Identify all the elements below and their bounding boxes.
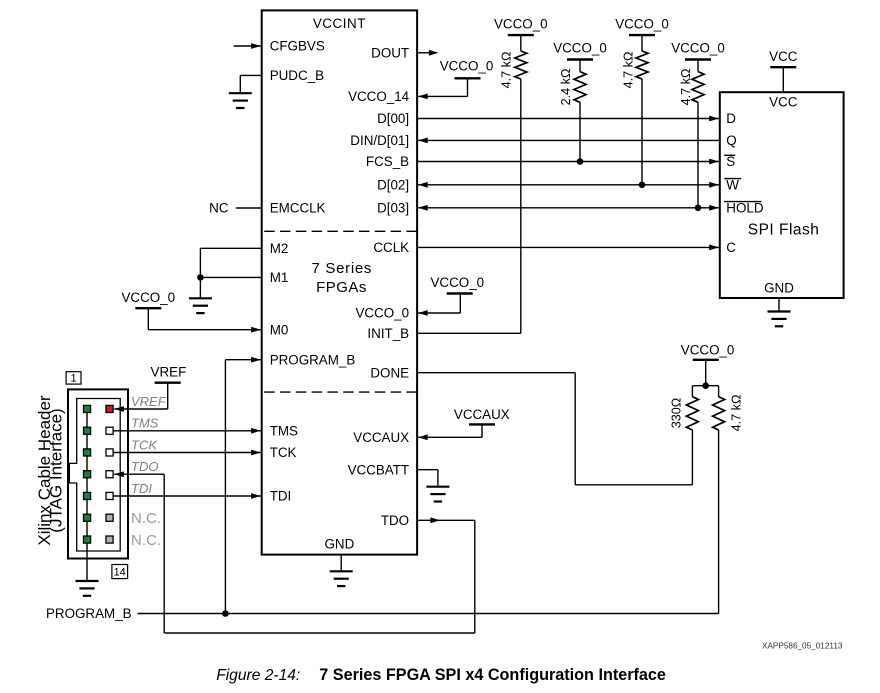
label 4.7 kOhm R3 xyxy=(621,52,635,89)
svg-text:N.C.: N.C. xyxy=(131,510,161,527)
SPI Flash label GND pin xyxy=(764,281,794,296)
wire TCK header to FPGA with arrow xyxy=(113,450,262,456)
svg-text:N.C.: N.C. xyxy=(131,532,161,549)
SPI Flash label VCC pin xyxy=(769,95,798,110)
resistor R1 4.7 kOhm (INIT_B pull-up) xyxy=(515,51,527,79)
svg-text:D[03]: D[03] xyxy=(377,201,409,216)
JTAG header outer shroud xyxy=(68,389,128,558)
wire TMS header to FPGA with arrow xyxy=(113,428,262,434)
wire CCLK to flash C with arrow xyxy=(417,245,720,251)
svg-text:TDI: TDI xyxy=(270,489,292,504)
svg-text:VCCAUX: VCCAUX xyxy=(353,430,409,445)
svg-text:1: 1 xyxy=(70,373,76,385)
power symbol VCCO_0 (M0) xyxy=(122,290,176,330)
overline for pin W xyxy=(724,178,741,180)
FPGA pin label M2 xyxy=(270,241,289,256)
svg-text:DONE: DONE xyxy=(370,365,409,380)
svg-text:VREF: VREF xyxy=(131,394,167,409)
SPI Flash pin label C xyxy=(726,240,736,255)
ground (VCCBATT) xyxy=(426,487,449,502)
FPGA pin label TMS xyxy=(270,423,298,438)
caption Figure 2-14 xyxy=(216,666,666,684)
watermark XAPP586_05_012113 xyxy=(762,642,843,651)
wire VCCAUX supply to pin with arrow xyxy=(417,434,482,440)
svg-text:VCCAUX: VCCAUX xyxy=(454,407,510,422)
wire FPGA GND stem xyxy=(340,555,342,572)
svg-text:PROGRAM_B: PROGRAM_B xyxy=(46,606,132,621)
svg-text:VCCO_0: VCCO_0 xyxy=(671,40,725,55)
JTAG header ground rail wire xyxy=(86,409,88,581)
label 4.7 kOhm R1 xyxy=(500,52,514,89)
label NC xyxy=(209,200,229,215)
pin 1 marker box xyxy=(66,372,81,385)
FPGA pin label FCS_B xyxy=(366,154,409,169)
JTAG header pin square left row 5 (green) xyxy=(84,492,91,499)
gray italic label VREF xyxy=(131,394,167,409)
wire TDO return bottom xyxy=(164,632,475,634)
svg-text:HOLD: HOLD xyxy=(726,201,764,216)
FPGA pin label VCCO_0 xyxy=(356,306,410,321)
FPGA pin label TDO xyxy=(381,513,409,528)
JTAG header pin square right row 2 xyxy=(106,427,113,434)
power symbol VCCO_0 (R4) xyxy=(671,40,725,71)
junction dot VCCO_0 node xyxy=(702,382,709,389)
svg-text:Figure 2-14:: Figure 2-14: xyxy=(216,667,300,684)
wire R5 top to VCCO_0 node xyxy=(692,386,718,397)
FPGA pin label M0 xyxy=(270,322,289,337)
svg-text:14: 14 xyxy=(114,567,126,579)
svg-text:VCCO_0: VCCO_0 xyxy=(681,343,735,358)
FPGA pin label PROGRAM_B xyxy=(270,352,356,367)
svg-text:DOUT: DOUT xyxy=(371,46,409,61)
wire DOUT output with arrow xyxy=(417,50,438,56)
FPGA internal dashed separator 2 xyxy=(264,391,417,393)
svg-text:VCC: VCC xyxy=(769,49,798,64)
gray italic label TDI xyxy=(131,481,152,496)
label PROGRAM_B xyxy=(46,606,132,621)
JTAG header pin square left row 1 (green) xyxy=(84,405,91,412)
gray label N.C. row 6 xyxy=(131,510,161,527)
svg-text:VCCO_0: VCCO_0 xyxy=(431,275,485,290)
junction dot D[02] / 4.7k resistor xyxy=(639,182,646,189)
wire R6 top connection xyxy=(718,386,720,397)
junction dot FCS_B / 2.4k resistor xyxy=(577,158,584,165)
svg-text:EMCCLK: EMCCLK xyxy=(270,201,326,216)
JTAG header pin square left row 3 (green) xyxy=(84,449,91,456)
wire TDO return into header with arrow xyxy=(114,471,164,633)
FPGA label VCCINT xyxy=(313,16,366,31)
FPGA label 7 Series FPGAs xyxy=(311,260,372,296)
JTAG header pin square left row 6 (green) xyxy=(84,514,91,521)
FPGA pin label INIT_B xyxy=(367,326,409,341)
wire VCCO_0 to M0 with arrow xyxy=(148,327,261,333)
overline for pin S xyxy=(724,154,735,156)
power symbol VCCO_0 (VCCO_14) xyxy=(440,59,494,97)
svg-text:PUDC_B: PUDC_B xyxy=(270,68,324,83)
wire M2 to ground rail xyxy=(200,248,261,277)
wire TDI header to FPGA with arrow xyxy=(113,493,262,499)
wire VREF to header pin with arrow xyxy=(114,406,168,412)
gray italic label TDO xyxy=(131,459,158,474)
wire D[03] to flash HOLD with arrows xyxy=(417,205,720,211)
SPI Flash pin label D xyxy=(726,111,736,126)
svg-text:C: C xyxy=(726,240,736,255)
wire VCCO_0 to VCCO_14 with arrow xyxy=(417,94,467,100)
svg-text:7 Series FPGA SPI x4 Configura: 7 Series FPGA SPI x4 Configuration Inter… xyxy=(319,666,666,684)
resistor R2 2.4 kOhm (FCS_B pull-up) xyxy=(574,72,586,103)
pin 14 marker box xyxy=(112,565,128,579)
svg-text:VCCO_0: VCCO_0 xyxy=(615,17,669,32)
wire R6 down to PROGRAM_B net xyxy=(718,430,720,614)
ground (SPI Flash GND) xyxy=(768,298,791,326)
wire FCS_B to flash S with arrow xyxy=(417,159,720,165)
FPGA pin label D[00] xyxy=(377,111,409,126)
ground (M1/M2) xyxy=(189,298,212,313)
JTAG header pin square right row 5 xyxy=(106,492,113,499)
FPGA pin label D[03] xyxy=(377,201,409,216)
wire VCCBATT to ground xyxy=(417,470,438,487)
wire R1 down to INIT_B xyxy=(417,79,521,333)
svg-text:CFGBVS: CFGBVS xyxy=(270,39,325,54)
junction dot D[03] / 4.7k resistor xyxy=(695,205,702,212)
rotated label Xilinx Cable Header xyxy=(35,395,54,546)
wire CFGBVS input with arrow xyxy=(234,43,262,49)
FPGA pin label EMCCLK xyxy=(270,201,326,216)
svg-text:D[00]: D[00] xyxy=(377,111,409,126)
wire PROGRAM_B vertical riser xyxy=(225,357,261,614)
label 4.7 kOhm R6 xyxy=(729,395,743,432)
svg-text:VCCO_0: VCCO_0 xyxy=(494,17,548,32)
svg-text:M0: M0 xyxy=(270,322,289,337)
gray italic label TCK xyxy=(131,437,158,452)
resistor R3 4.7 kOhm (D[02] pull-up) xyxy=(636,51,648,79)
ground (PUDC_B) xyxy=(229,93,252,108)
wire M1 to ground rail xyxy=(200,276,261,278)
SPI Flash pin label W xyxy=(726,178,739,193)
resistor R6 4.7 kOhm (PROGRAM_B pull-up) xyxy=(713,397,725,430)
power symbol VCCO_0 (R2) xyxy=(553,40,607,71)
svg-text:FCS_B: FCS_B xyxy=(366,154,409,169)
power symbol VCCO_0 (R3) xyxy=(615,17,669,51)
wire down to M1/M2 ground xyxy=(199,277,201,298)
svg-text:(JTAG Interface): (JTAG Interface) xyxy=(47,408,66,532)
svg-text:TDI: TDI xyxy=(131,481,152,496)
svg-text:VCCO_0: VCCO_0 xyxy=(122,290,176,305)
JTAG header pin square left row 4 (green) xyxy=(84,471,91,478)
power symbol VCC (SPI Flash) xyxy=(769,49,798,92)
svg-text:4.7 kΩ: 4.7 kΩ xyxy=(729,395,743,432)
SPI Flash U2 block xyxy=(720,92,844,298)
wire NC to EMCCLK xyxy=(236,207,262,209)
FPGA pin label DONE xyxy=(370,365,409,380)
gray label N.C. row 7 xyxy=(131,532,161,549)
svg-text:D: D xyxy=(726,111,736,126)
FPGA pin label TDI xyxy=(270,489,292,504)
label 2.4 kOhm R2 xyxy=(559,69,573,106)
wire R2 down to FCS_B xyxy=(579,102,581,161)
JTAG header pin square right row 4 xyxy=(106,471,113,478)
FPGA pin label PUDC_B xyxy=(270,68,324,83)
SPI Flash pin label HOLD xyxy=(726,201,764,216)
wire DIN/D[01] from flash Q with arrow xyxy=(417,138,720,144)
wire D[00] to flash D with arrow xyxy=(417,116,720,122)
svg-text:S: S xyxy=(726,154,735,169)
power symbol VCCAUX xyxy=(454,407,510,438)
junction dot PROGRAM_B riser xyxy=(222,610,229,617)
svg-text:SPI Flash: SPI Flash xyxy=(748,222,820,239)
svg-text:VCCBATT: VCCBATT xyxy=(348,462,410,477)
wire D[02] to flash W with arrows xyxy=(417,182,720,188)
svg-text:FPGAs: FPGAs xyxy=(316,279,367,296)
label 4.7 kOhm R4 xyxy=(679,69,693,106)
FPGA block U1 (7 Series FPGAs) xyxy=(262,10,417,554)
svg-text:TMS: TMS xyxy=(131,416,159,431)
JTAG header pin square right row 7 xyxy=(106,536,113,543)
gray italic label TMS xyxy=(131,416,159,431)
svg-text:CCLK: CCLK xyxy=(373,240,409,255)
svg-text:TCK: TCK xyxy=(270,445,297,460)
FPGA label GND xyxy=(325,537,355,552)
resistor R5 330 Ohm (DONE pull-up) xyxy=(686,397,698,430)
JTAG header pin square left row 2 (green) xyxy=(84,427,91,434)
wire PUDC_B to ground xyxy=(240,75,261,93)
svg-text:VCCO_0: VCCO_0 xyxy=(356,306,410,321)
FPGA pin label DIN/D[01] xyxy=(350,133,409,148)
wire TDO output with arrow xyxy=(417,517,475,633)
svg-text:PROGRAM_B: PROGRAM_B xyxy=(270,352,356,367)
svg-text:GND: GND xyxy=(764,281,794,296)
FPGA pin label D[02] xyxy=(377,178,409,193)
SPI Flash pin label S xyxy=(726,154,735,169)
svg-text:Q: Q xyxy=(726,133,736,148)
svg-text:4.7 kΩ: 4.7 kΩ xyxy=(621,52,635,89)
FPGA internal dashed separator 1 xyxy=(264,230,417,232)
SPI Flash pin label Q xyxy=(726,133,736,148)
svg-text:4.7 kΩ: 4.7 kΩ xyxy=(500,52,514,89)
JTAG header pin square right row 3 xyxy=(106,449,113,456)
svg-text:VCC: VCC xyxy=(769,95,798,110)
svg-text:GND: GND xyxy=(325,537,355,552)
overline for pin HOLD xyxy=(724,201,761,203)
svg-text:TDO: TDO xyxy=(131,459,158,474)
FPGA pin label M1 xyxy=(270,270,289,285)
resistor R4 4.7 kOhm (HOLD pull-up) xyxy=(692,72,704,103)
ground (FPGA GND) xyxy=(330,571,353,586)
svg-text:330Ω: 330Ω xyxy=(669,398,683,428)
svg-text:XAPP586_05_012113: XAPP586_05_012113 xyxy=(762,642,843,651)
power symbol VREF xyxy=(151,365,187,410)
JTAG header pin square right row 6 xyxy=(106,514,113,521)
svg-text:M2: M2 xyxy=(270,241,289,256)
wire R3 down to D[02] xyxy=(641,79,643,185)
FPGA pin label CFGBVS xyxy=(270,39,325,54)
power symbol VCCO_0 (R1) xyxy=(494,17,548,51)
svg-text:VREF: VREF xyxy=(151,365,187,380)
label 330 Ohm R5 xyxy=(669,398,683,428)
JTAG header pin square right row 1 xyxy=(106,405,113,412)
svg-text:M1: M1 xyxy=(270,270,289,285)
ground (JTAG header) xyxy=(76,581,99,596)
svg-text:VCCINT: VCCINT xyxy=(313,16,366,31)
svg-text:2.4 kΩ: 2.4 kΩ xyxy=(559,69,573,106)
svg-text:4.7 kΩ: 4.7 kΩ xyxy=(679,69,693,106)
JTAG header pin square left row 7 (green) xyxy=(84,536,91,543)
svg-text:VCCO_0: VCCO_0 xyxy=(553,40,607,55)
SPI Flash label SPI Flash xyxy=(748,222,820,239)
FPGA pin label VCCAUX xyxy=(353,430,409,445)
svg-text:NC: NC xyxy=(209,200,229,215)
svg-text:TMS: TMS xyxy=(270,423,298,438)
wire R4 down to HOLD xyxy=(697,102,699,208)
svg-text:TDO: TDO xyxy=(381,513,409,528)
svg-text:DIN/D[01]: DIN/D[01] xyxy=(350,133,409,148)
wire PROGRAM_B net xyxy=(138,613,719,615)
wire VCCO_0 supply to pin with arrow xyxy=(417,310,460,316)
svg-text:TCK: TCK xyxy=(131,437,158,452)
JTAG header inner outline with key notch xyxy=(69,399,120,552)
FPGA pin label DOUT xyxy=(371,46,409,61)
svg-text:VCCO_0: VCCO_0 xyxy=(440,59,494,74)
wire DONE to pull-up network xyxy=(417,373,692,485)
svg-text:INIT_B: INIT_B xyxy=(367,326,409,341)
FPGA pin label VCCO_14 xyxy=(348,89,410,104)
svg-text:D[02]: D[02] xyxy=(377,178,409,193)
rotated label (JTAG Interface) xyxy=(47,408,66,532)
svg-text:VCCO_14: VCCO_14 xyxy=(348,89,410,104)
power symbol VCCO_0 (VCCO_0 pin) xyxy=(431,275,485,313)
power symbol VCCO_0 (DONE/PROGRAM_B pull-ups) xyxy=(681,343,735,386)
svg-text:7 Series: 7 Series xyxy=(311,260,372,277)
svg-text:W: W xyxy=(726,178,739,193)
FPGA pin label CCLK xyxy=(373,240,409,255)
FPGA pin label VCCBATT xyxy=(348,462,410,477)
FPGA pin label TCK xyxy=(270,445,297,460)
junction dot M1/M2 xyxy=(197,274,204,281)
